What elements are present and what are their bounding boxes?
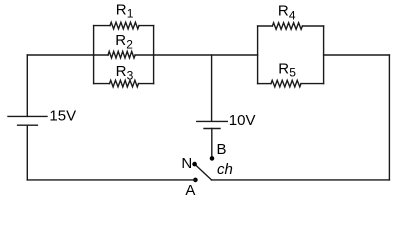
wire: main horizontal, right segment <box>324 54 390 56</box>
node B <box>210 156 215 161</box>
battery B2 10V: short plate <box>204 128 220 130</box>
battery B1 15V: short plate <box>18 124 38 126</box>
svg-text:4: 4 <box>289 8 296 22</box>
svg-text:5: 5 <box>289 66 296 80</box>
svg-text:R: R <box>115 32 126 49</box>
switch ch: blade from pivot to node N <box>195 164 212 180</box>
battery B1 15V: top lead <box>26 55 28 116</box>
battery B2 10V: long plate <box>197 120 228 122</box>
wire: main horizontal, left segment <box>27 54 93 56</box>
svg-text:10V: 10V <box>229 112 256 129</box>
wire: bottom right horizontal <box>212 179 390 181</box>
resistor R3 <box>94 63 154 87</box>
battery B1 15V: long plate <box>8 115 47 117</box>
svg-text:B: B <box>217 141 227 158</box>
svg-text:R: R <box>278 3 289 20</box>
wire: right box right edge <box>323 26 325 84</box>
node A <box>193 178 198 183</box>
svg-text:A: A <box>185 182 195 199</box>
wire: left vertical bottom lead <box>26 125 28 180</box>
svg-text:R: R <box>116 63 127 80</box>
svg-text:R: R <box>278 60 289 77</box>
resistor R4 <box>258 3 324 30</box>
svg-text:2: 2 <box>126 37 133 51</box>
resistor R1 <box>94 2 154 29</box>
wire: left box right edge <box>153 26 155 84</box>
battery B2 10V: bottom lead to node B <box>211 129 213 159</box>
svg-text:15V: 15V <box>49 108 76 125</box>
resistor R2 <box>94 32 154 58</box>
svg-text:R: R <box>116 2 127 19</box>
svg-text:N: N <box>181 155 192 172</box>
svg-text:ch: ch <box>217 161 233 178</box>
wire: right vertical side <box>388 55 390 180</box>
wire: right box left edge <box>257 26 259 84</box>
svg-text:1: 1 <box>127 6 134 20</box>
battery B2 10V: top lead <box>211 55 213 121</box>
wire: left box left edge <box>93 26 95 84</box>
wire: main horizontal, middle segment <box>154 54 258 56</box>
svg-text:3: 3 <box>127 69 134 83</box>
resistor R5 <box>258 60 324 87</box>
node N <box>192 162 197 167</box>
wire: bottom left horizontal <box>27 179 195 181</box>
